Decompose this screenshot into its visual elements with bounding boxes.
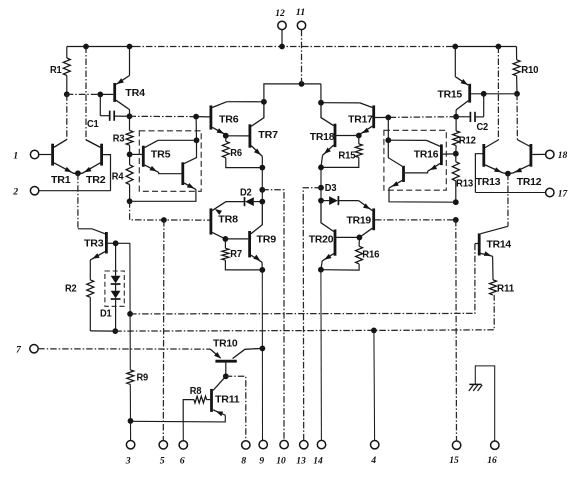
resistor R6 (222, 136, 262, 168)
node D2 anode (259, 199, 265, 205)
node TR6 base (193, 114, 199, 120)
capacitor C2 (456, 94, 489, 133)
node TR3 base (113, 240, 119, 246)
transistor TR13 (475, 144, 508, 193)
pin 17 (546, 188, 569, 199)
resistor R8 (183, 386, 210, 422)
node D3 anode (318, 198, 324, 204)
wire TR6 emitter to TR7 base (226, 135, 249, 137)
transistor TR2 (78, 140, 111, 191)
node rail-TR2 (83, 44, 89, 50)
svg-text:6: 6 (180, 456, 185, 467)
svg-text:3: 3 (125, 456, 131, 467)
svg-text:R4: R4 (112, 172, 124, 183)
svg-text:TR4: TR4 (125, 88, 145, 99)
node TR1/TR2 emitters (75, 170, 81, 176)
wire driver rail y84 (264, 84, 321, 102)
wire bias y330 gnd line (115, 295, 494, 331)
resistor R12 (453, 117, 477, 154)
node TR18 emitter / R15 (318, 165, 324, 171)
wire R3R4 to TR5 base (130, 153, 142, 155)
node TR15 collector / C2 (453, 114, 459, 120)
svg-text:TR19: TR19 (347, 216, 372, 227)
wire TR12 collector riser (517, 94, 532, 148)
svg-text:TR12: TR12 (517, 177, 542, 188)
resistor R4 (112, 154, 133, 201)
node TR19 base pin15 (453, 217, 459, 223)
node TR12/TR13 emitters (505, 171, 511, 177)
pin 6 (179, 422, 187, 467)
dashed box D1 (105, 271, 124, 306)
wire tail to TR14 collector (481, 174, 508, 234)
resistor R2 (65, 260, 94, 331)
pin 3 (125, 421, 135, 467)
svg-text:14: 14 (313, 456, 323, 467)
node TR17/TR18 collector (318, 100, 324, 106)
node TR9 emitter / R7 (259, 267, 265, 273)
transistor TR9 (250, 202, 277, 270)
wire pin14 riser (320, 270, 323, 441)
svg-text:R3: R3 (113, 133, 125, 144)
wire pin17 to TR13 base (475, 192, 545, 194)
pin 5 (159, 220, 167, 467)
resistor R1 (50, 47, 70, 95)
wire TR16b emitter to R13 node (389, 188, 456, 202)
svg-text:TR5: TR5 (151, 150, 171, 161)
svg-text:1: 1 (13, 150, 18, 161)
wire TR8 coll to TR9 base (225, 238, 248, 240)
svg-text:10: 10 (276, 456, 286, 467)
pin 16 (487, 441, 499, 466)
svg-text:R11: R11 (497, 283, 515, 294)
svg-text:TR7: TR7 (258, 130, 278, 141)
transistor TR6 (211, 102, 264, 135)
transistor TR16a (388, 140, 456, 173)
wire pin13 riser (303, 188, 321, 441)
svg-text:C2: C2 (477, 122, 489, 133)
wire TR1 collector riser (54, 94, 67, 147)
svg-text:TR3: TR3 (84, 238, 104, 249)
resistor R9 (127, 314, 149, 421)
svg-text:TR11: TR11 (215, 394, 240, 405)
wire TR19 base (375, 219, 456, 221)
resistor R16 (321, 237, 380, 270)
transistor TR5a (143, 140, 196, 173)
diode D3 (321, 183, 359, 205)
svg-text:8: 8 (241, 456, 246, 467)
transistor TR18 (310, 103, 335, 168)
svg-text:TR20: TR20 (309, 234, 334, 245)
wire pin4 riser (373, 330, 376, 440)
svg-text:TR14: TR14 (487, 240, 512, 251)
wire TR4-collector to TR6 base (130, 115, 210, 118)
wire pin7 to TR10 (38, 348, 210, 350)
svg-text:TR13: TR13 (476, 177, 501, 188)
diode D1 (dual) (100, 243, 121, 331)
wire pin1 to TR1 (39, 154, 52, 156)
wire pin2 to TR2 base (39, 190, 111, 192)
svg-text:R9: R9 (137, 372, 149, 383)
node TR16 collectors (385, 137, 391, 143)
svg-text:R7: R7 (230, 249, 242, 260)
wire pin10 riser (262, 190, 284, 441)
wire TR7em to D2 node (261, 168, 263, 202)
node TR4 collector / C1 (127, 113, 133, 119)
capacitor C1 (87, 94, 130, 130)
wire TR19 coll to TR20 base (336, 236, 359, 238)
transistor TR4 (115, 47, 146, 117)
svg-text:16: 16 (487, 455, 497, 466)
svg-text:TR16: TR16 (414, 149, 439, 160)
svg-text:4: 4 (370, 455, 376, 466)
resistor R11 (490, 256, 515, 295)
wire C2 to TR17 base (375, 116, 456, 119)
svg-text:TR10: TR10 (213, 339, 238, 350)
svg-text:TR17: TR17 (348, 114, 373, 125)
svg-text:R10: R10 (521, 65, 539, 76)
node TR19 collector (357, 235, 363, 241)
transistor TR19 (347, 201, 374, 238)
wire pin16 to ground (475, 366, 494, 441)
svg-text:TR18: TR18 (310, 132, 335, 143)
node TR6/TR7 collector (261, 99, 267, 105)
node R4 bottom (127, 198, 133, 204)
pin 12 (275, 8, 286, 50)
dashed box TR5 (139, 131, 201, 192)
node R9 bottom (128, 418, 134, 424)
resistor R13 (452, 154, 473, 203)
resistor R7 (222, 239, 262, 270)
node TR5 collectors (194, 137, 200, 143)
svg-text:18: 18 (558, 150, 568, 161)
wire rail corner to TR17 (320, 84, 322, 103)
pin 2 (12, 187, 39, 198)
wire TR15 base (471, 93, 517, 95)
svg-text:TR2: TR2 (86, 175, 106, 186)
diode D2 (226, 188, 262, 207)
wire pin15 riser (455, 220, 458, 441)
resistor R3 (113, 116, 133, 154)
pin 14 (313, 440, 325, 466)
svg-text:R8: R8 (190, 386, 202, 397)
wire TR17base to TR16 collector (387, 117, 389, 140)
wire R2 bottom to D1 bottom (90, 330, 115, 332)
pin 8 (241, 441, 250, 467)
transistor TR7 (250, 102, 279, 168)
transistor TR15 (438, 47, 470, 117)
node bias y314 left (127, 311, 133, 317)
transistor TR3 (84, 232, 116, 260)
node TR15 base (481, 91, 487, 97)
svg-text:12: 12 (275, 8, 285, 19)
svg-text:D2: D2 (240, 188, 252, 199)
transistor TR16 label (414, 149, 439, 160)
wire TR8 base (130, 201, 210, 220)
transistor TR10 (210, 339, 262, 377)
transistor TR20 (309, 201, 335, 270)
pin 13 (296, 441, 308, 467)
pin 1 (13, 150, 39, 161)
transistor TR5b (183, 140, 197, 189)
node pin11 on rail (299, 81, 305, 87)
node pin5 tap (161, 217, 167, 223)
wire pin9 riser (261, 270, 263, 440)
svg-text:15: 15 (449, 455, 459, 466)
transistor TR12 (508, 144, 546, 188)
wire bias y314 (130, 244, 478, 314)
svg-text:9: 9 (259, 456, 264, 467)
transistor TR11 (131, 376, 241, 422)
node pin10 tap (259, 187, 265, 193)
svg-text:11: 11 (296, 7, 306, 18)
wire TR18em to D3 node (320, 167, 322, 200)
wire TR3 base to pin3 riser (116, 243, 131, 314)
svg-text:R1: R1 (50, 65, 62, 76)
svg-text:R13: R13 (456, 178, 474, 189)
node TR20 emitter / R16 (318, 267, 324, 273)
pin 9 (259, 440, 267, 466)
svg-text:D3: D3 (325, 183, 337, 194)
svg-text:TR15: TR15 (438, 90, 463, 101)
node TR17 base (385, 115, 391, 121)
transistor TR5 label (151, 150, 171, 161)
wire TR6base to TR5 collector (195, 117, 197, 141)
svg-text:R15: R15 (338, 150, 356, 161)
svg-text:17: 17 (558, 188, 569, 199)
node pin4 tap (371, 328, 377, 334)
transistor TR1 (51, 140, 78, 186)
wire TR2 collector riser (86, 47, 100, 148)
node R1 bottom (64, 91, 70, 97)
svg-text:TR9: TR9 (257, 234, 277, 245)
svg-text:TR8: TR8 (218, 215, 238, 226)
wire VCC top rail (67, 46, 517, 48)
pin 15 (449, 441, 461, 466)
node pin13 tap (318, 185, 324, 191)
node TR17 emitter (356, 133, 362, 139)
svg-text:C1: C1 (87, 119, 99, 130)
wire R1 to TR4 base (67, 93, 113, 95)
pin 11 (296, 7, 306, 84)
wire TR5b emitter to R4 node (130, 189, 196, 201)
wire TR17 emitter to TR18 base (336, 135, 359, 137)
transistor TR17 (321, 103, 374, 135)
dashed box TR16 (384, 130, 446, 190)
svg-text:5: 5 (160, 456, 165, 467)
node TR8 collector (223, 236, 229, 242)
node rail-TR13 (496, 44, 502, 50)
node R3-R4 (127, 152, 133, 158)
transistor TR14 (475, 233, 512, 256)
node TR4 base (97, 92, 103, 98)
svg-text:13: 13 (296, 456, 306, 467)
pin 10 (276, 440, 288, 466)
transistor TR8 (211, 202, 239, 239)
pin 7 (16, 345, 38, 356)
node TR6 emitter (223, 133, 229, 139)
node R12-R13 (453, 151, 459, 157)
node R13 bottom (453, 199, 459, 205)
svg-text:TR6: TR6 (219, 114, 239, 125)
svg-text:TR1: TR1 (51, 175, 71, 186)
node R10 bottom (514, 91, 520, 97)
svg-text:R2: R2 (65, 283, 77, 294)
svg-text:D1: D1 (100, 308, 112, 319)
wire tail to TR3 collector (78, 173, 105, 234)
node TR7 emitter / R6 (259, 165, 265, 171)
node rail-TR15 (452, 44, 458, 50)
svg-text:R12: R12 (459, 136, 477, 147)
wire to pin8 (226, 376, 246, 440)
node TR10 emitter (223, 373, 229, 379)
node TR10 collector tap (260, 346, 266, 352)
ground (469, 384, 482, 391)
pin 18 (546, 150, 568, 161)
svg-text:R16: R16 (362, 249, 380, 260)
resistor R15 (321, 136, 362, 168)
transistor TR16b (388, 140, 403, 188)
wire TR13 collector riser (485, 47, 498, 148)
svg-text:2: 2 (12, 187, 18, 198)
node rail-TR4 (127, 44, 133, 50)
node D1 bottom (112, 328, 118, 334)
svg-text:R6: R6 (230, 148, 242, 159)
pin 4 (370, 441, 379, 467)
resistor R10 (513, 47, 539, 94)
